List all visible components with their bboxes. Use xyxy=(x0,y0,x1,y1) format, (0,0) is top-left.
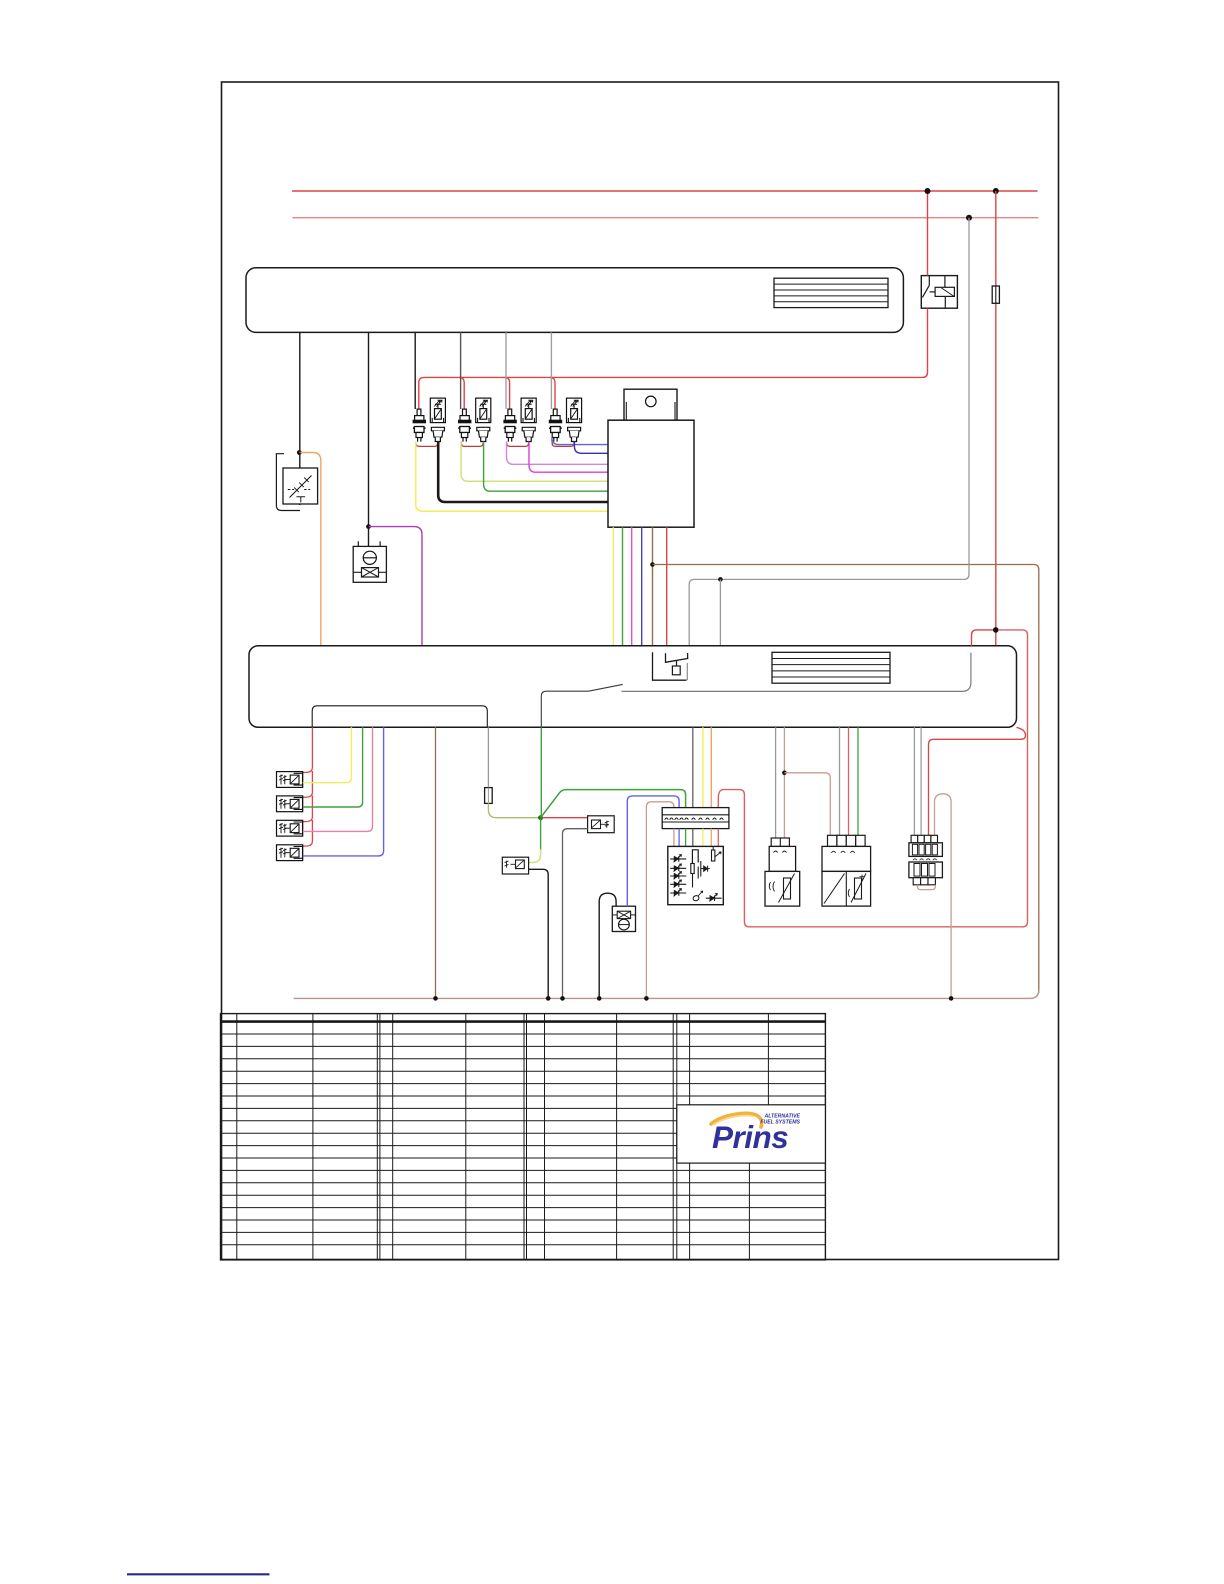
svg-text:FUEL SYSTEMS: FUEL SYSTEMS xyxy=(760,1120,800,1126)
